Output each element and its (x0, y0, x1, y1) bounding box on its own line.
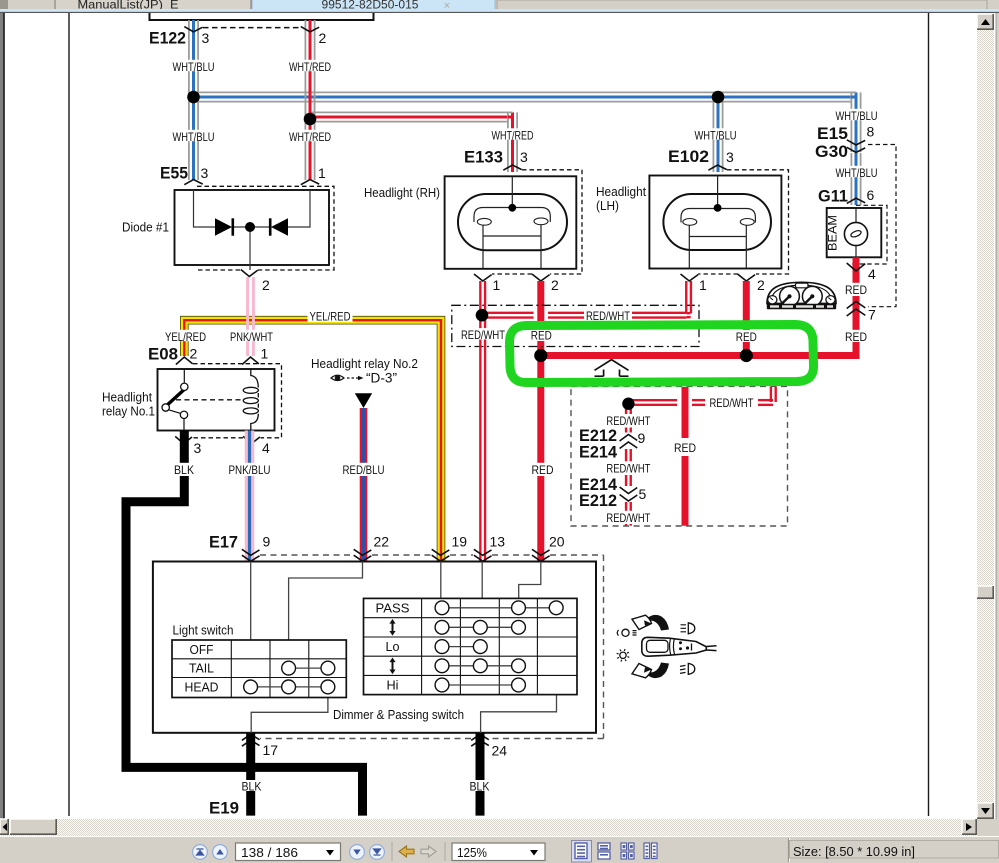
relay coil (251, 369, 258, 431)
low beam icon (688, 663, 695, 674)
svg-text:138 / 186: 138 / 186 (241, 846, 298, 860)
wire YEL/RED path (184, 320, 441, 561)
svg-text:Headlight relay No.2: Headlight relay No.2 (311, 356, 418, 371)
connector E133 pin3 chevron (503, 165, 521, 170)
svg-text:Diode #1: Diode #1 (122, 220, 169, 235)
svg-text:WHT/RED: WHT/RED (289, 130, 331, 144)
headlight LH box (649, 176, 781, 269)
svg-text:HEAD: HEAD (185, 679, 219, 694)
svg-text:E102: E102 (668, 148, 709, 166)
headlight LH filaments (681, 209, 755, 223)
label WHT/RED E133 (490, 128, 536, 139)
label RED/WHT (2) (604, 461, 652, 472)
redraw PNK/WHT over yellow (246, 308, 249, 326)
BEAM dashed box (850, 205, 887, 264)
svg-text:RED: RED (531, 328, 552, 342)
h-scroll left button (0, 819, 9, 835)
diode D1 center node (245, 222, 255, 232)
svg-text:3: 3 (201, 165, 209, 181)
label PNK/WHT (228, 330, 275, 341)
svg-text:24: 24 (492, 743, 508, 759)
v-scroll down button (977, 803, 994, 819)
connector E122 dashed line (203, 27, 301, 29)
svg-text:E133: E133 (464, 149, 503, 167)
headlight LH bulb outline (663, 194, 771, 250)
high beam icon (688, 623, 695, 634)
connector E08 pin3 chevron (175, 436, 192, 443)
position lamp icon (622, 629, 629, 636)
BEAM internal wire (855, 208, 857, 257)
wire RED/WHT horizontal in dashdot box (482, 312, 534, 314)
svg-text:RED: RED (845, 330, 867, 344)
label RED/WHT on wire gap (584, 309, 632, 320)
svg-text:E19: E19 (209, 800, 239, 818)
wire RED E133-2 down (537, 281, 544, 329)
svg-text:BLK: BLK (242, 782, 262, 794)
svg-text:WHT/BLU: WHT/BLU (173, 130, 215, 144)
connector E55 pin1 chevron (301, 180, 319, 185)
BEAM bulb (844, 222, 867, 245)
tab 99512 active (252, 0, 495, 12)
svg-text:Lo: Lo (386, 639, 400, 654)
svg-text:4: 4 (868, 266, 876, 282)
light switch contacts HEAD (251, 686, 328, 688)
relay switch contact (183, 369, 185, 431)
svg-text:E08: E08 (148, 346, 178, 364)
wire RED/WHT E133-1 down to E17-13 (479, 281, 481, 562)
connector 5 double chevron down (620, 487, 638, 494)
svg-text:RED/WHT: RED/WHT (461, 328, 506, 342)
svg-text:1: 1 (318, 165, 326, 181)
diode D1 internal wiring (194, 190, 311, 270)
connector E102 pin1 chevron (681, 274, 699, 281)
dimmer passing switch table (364, 598, 578, 694)
stalk icon (617, 615, 717, 678)
svg-text:PNK/BLU: PNK/BLU (229, 463, 271, 477)
svg-text:1: 1 (261, 346, 269, 362)
connector E55 pin2 chevron (241, 270, 258, 277)
zoom field (452, 843, 545, 861)
connector E08 pin2 chevron (176, 357, 193, 365)
junction node main red / E102-2 (740, 349, 753, 362)
dash-dot box RED/WHT (452, 305, 699, 346)
label WHT/BLU E15 (834, 109, 880, 120)
svg-text:1: 1 (699, 277, 707, 293)
size panel (788, 838, 790, 862)
svg-text:RED: RED (845, 283, 867, 297)
eye symbol + D-3 reference (331, 375, 364, 380)
svg-text:E212: E212 (579, 492, 617, 510)
junction node main red / E133-2 (534, 349, 547, 362)
svg-text:G30: G30 (815, 143, 848, 161)
relay solid box (158, 369, 275, 431)
svg-text:13: 13 (490, 534, 506, 550)
label WHT/RED row1 (287, 60, 333, 71)
connector E17 pin17 chevrons (242, 734, 260, 740)
stalk lower arrow (648, 663, 669, 679)
svg-text:Light switch: Light switch (173, 623, 234, 638)
wire RED from BEAM pin4 (853, 257, 860, 283)
wire WHT/BLU E122-3 to E55-3 (188, 20, 190, 180)
label RED (above pin7) (843, 283, 869, 294)
h-scroll right button (962, 819, 977, 835)
status bar (0, 836, 999, 863)
svg-text:WHT/BLU: WHT/BLU (836, 109, 878, 123)
svg-text:17: 17 (263, 742, 279, 758)
connector E133 pin2 chevron (532, 274, 550, 281)
connector E55 pin3 chevron (184, 180, 202, 185)
dimmer contacts (442, 607, 556, 609)
svg-text:19: 19 (452, 534, 468, 550)
dashed bracket E15-G30 to pin7 (868, 145, 896, 307)
svg-text:WHT/RED: WHT/RED (289, 60, 331, 74)
main RED horizontal wire (541, 352, 860, 359)
label RED on E133-2 wire (529, 328, 554, 339)
svg-text:RED/WHT: RED/WHT (606, 461, 651, 475)
svg-text:Hi: Hi (387, 678, 399, 693)
svg-text:WHT/BLU: WHT/BLU (173, 60, 215, 74)
wire WHT/BLU to E102-3 (712, 97, 714, 172)
svg-text:9: 9 (638, 430, 646, 446)
svg-text:Headlight: Headlight (102, 390, 152, 405)
svg-text:7: 7 (868, 307, 876, 323)
svg-text:PNK/WHT: PNK/WHT (230, 330, 274, 344)
svg-text:9: 9 (263, 534, 271, 550)
diode D1 solid box (175, 190, 330, 265)
history back arrow (yellow) (399, 846, 414, 857)
wire PNK/WHT diode to E08 (246, 277, 249, 356)
svg-text:WHT/BLU: WHT/BLU (836, 166, 878, 180)
page frame left line (68, 13, 70, 816)
instrument cluster icon (767, 282, 836, 309)
svg-text:5: 5 (639, 486, 647, 502)
svg-text:2: 2 (757, 277, 765, 293)
switch unit solid box (153, 562, 596, 733)
svg-text:E212: E212 (579, 427, 617, 445)
wire RED/WHT horizontal in E212 box (628, 399, 677, 401)
connector E122 pin 2 chevron (301, 27, 319, 32)
label RED (below pin7) (843, 330, 869, 341)
BEAM solid box (827, 208, 882, 257)
headlight RH box (445, 176, 577, 268)
off/sun icon (620, 652, 626, 658)
wire PNK/BLU (245, 431, 255, 465)
svg-text:E122: E122 (149, 30, 186, 48)
E212/E214 dashed box (571, 386, 788, 526)
svg-text:E214: E214 (579, 444, 618, 462)
svg-text:RED/WHT: RED/WHT (606, 414, 651, 428)
wire RED/WHT vertical in E212 box (625, 404, 627, 414)
svg-text:relay No.1: relay No.1 (102, 404, 155, 419)
svg-text:3: 3 (202, 30, 210, 46)
wire RED/WHT E102-1 corner (685, 281, 687, 313)
svg-text:WHT/RED: WHT/RED (492, 128, 534, 142)
svg-text:1: 1 (493, 277, 501, 293)
connector pin7 double chevron (847, 302, 866, 309)
svg-text:YEL/RED: YEL/RED (310, 310, 351, 324)
svg-text:6: 6 (867, 187, 875, 203)
svg-text:2: 2 (319, 30, 327, 46)
v-scroll up button (977, 14, 994, 30)
svg-text:RED: RED (532, 463, 554, 477)
svg-text:TAIL: TAIL (189, 661, 214, 676)
svg-text:OFF: OFF (190, 642, 214, 657)
wire WHT/RED E122-2 to E55-1 (304, 20, 306, 180)
label BLK pin24 (468, 780, 492, 791)
headlight LH dashed connector box (698, 170, 789, 274)
svg-text:RED/WHT: RED/WHT (710, 396, 755, 410)
light switch table (172, 640, 346, 698)
diode D1 dashed connector box (197, 186, 334, 270)
light switch contacts TAIL (289, 667, 328, 669)
svg-text:Dimmer & Passing switch: Dimmer & Passing switch (333, 707, 464, 722)
label RED on pin20 wire (530, 463, 556, 474)
relay dashed connector box (193, 364, 282, 438)
history fwd arrow (gray) (421, 846, 436, 857)
label RED on E102-2 wire (734, 330, 759, 341)
diode D1 right diode (271, 218, 288, 235)
junction node E212 (622, 398, 634, 410)
wire BLK pin17 to E19 (246, 733, 255, 816)
relay mechanical dashed link (176, 399, 242, 401)
connector G30 chevron (847, 147, 865, 152)
label WHT/BLU row2 (171, 130, 217, 141)
headlight RH filaments (474, 208, 550, 223)
svg-text:WHT/BLU: WHT/BLU (695, 128, 737, 142)
v-scroll thumb (977, 586, 994, 599)
svg-text:3: 3 (726, 149, 734, 165)
connector pin4 chevron (847, 263, 866, 271)
wire WHT/BLU G11 below G30 (850, 153, 852, 205)
svg-text:E17: E17 (209, 534, 238, 552)
svg-text:G11: G11 (818, 188, 848, 206)
wire BLK pin24 down (476, 733, 485, 816)
svg-text:RED/WHT: RED/WHT (606, 511, 651, 525)
wire RED inside E212 box (682, 387, 689, 438)
label WHT/BLU row1 (171, 60, 217, 71)
page frame right line (928, 13, 930, 816)
svg-text:BLK: BLK (174, 463, 194, 477)
connector E08 pin1 chevron (242, 357, 259, 365)
connector 9 double chevron up (620, 435, 638, 442)
svg-text:8: 8 (867, 124, 875, 140)
E17 dashed connector line top (260, 555, 604, 739)
vertical scrollbar (977, 13, 994, 819)
E17 pin chevrons (double) (242, 549, 260, 555)
label YEL/RED horizontal gap (308, 309, 353, 322)
svg-text:4: 4 (262, 440, 270, 456)
label RED/WHT in E212 box horizontal (708, 396, 756, 407)
tab ManualList (55, 0, 251, 10)
connector E15 chevron (847, 140, 865, 145)
label WHT/BLU E102 (693, 128, 739, 139)
up-down arrows (392, 623, 394, 631)
label RED/WHT below junction (459, 328, 507, 339)
switch unit internal wires (251, 562, 557, 733)
layout buttons (572, 841, 592, 863)
junction node RED/WHT (476, 309, 489, 322)
connector E133 pin1 chevron (474, 274, 492, 281)
label WHT/BLU G11 (834, 166, 880, 177)
headlight RH bulb outline (458, 194, 567, 250)
horizontal scrollbar (0, 819, 977, 836)
svg-text:PASS: PASS (376, 601, 410, 616)
svg-text:RED/BLU: RED/BLU (343, 463, 385, 477)
wire WHT/BLU horizontal bus (194, 91, 852, 93)
connector E122 pin 3 chevron (184, 27, 202, 32)
svg-text:2: 2 (262, 277, 270, 293)
label BLK pin17 (240, 780, 264, 791)
svg-text:(LH): (LH) (596, 198, 619, 213)
svg-text:BEAM: BEAM (826, 215, 840, 251)
junction node E102-3 bus (712, 91, 725, 104)
svg-text:E15: E15 (817, 125, 848, 143)
top component box (cut) (150, 13, 374, 20)
label RED/WHT (3) (604, 511, 652, 522)
svg-text:BLK: BLK (470, 782, 490, 794)
connector G11 chevron (847, 198, 865, 203)
svg-text:RED: RED (674, 441, 696, 455)
wire RED/BLU (360, 408, 368, 464)
svg-text:Headlight: Headlight (596, 184, 646, 199)
svg-text:“D-3”: “D-3” (366, 370, 397, 386)
wire WHT/RED horizontal to E133 (310, 111, 508, 113)
svg-text:Headlight (RH): Headlight (RH) (364, 185, 440, 200)
stalk upper arrow (648, 615, 669, 631)
label RED/WHT (1) (604, 414, 652, 425)
re-draw red vertical over blue bus (304, 90, 306, 124)
label RED inside E212 box (672, 441, 698, 452)
svg-text:125%: 125% (457, 846, 487, 860)
diode D1 left diode (215, 218, 232, 235)
tab bar lower strip (497, 0, 987, 10)
connector E102 pin3 chevron (708, 165, 726, 170)
svg-text:2: 2 (551, 277, 559, 293)
svg-text:2: 2 (190, 346, 198, 362)
connector E08 pin4 chevron (243, 436, 260, 443)
tab bar background (0, 0, 999, 13)
junction node E122-2 bus (304, 113, 317, 126)
svg-text:22: 22 (374, 534, 390, 550)
svg-text:20: 20 (549, 534, 565, 550)
svg-text:RED: RED (736, 330, 757, 344)
svg-text:YEL/RED: YEL/RED (165, 330, 206, 344)
h-scroll thumb (10, 819, 57, 835)
wire RED E102-2 down (743, 281, 750, 331)
house up-arrow symbol (595, 360, 629, 377)
wire BLK relay ground (126, 431, 363, 816)
svg-text:3: 3 (520, 149, 528, 165)
nav first/prev buttons (193, 845, 208, 860)
svg-text:Size: [8.50 * 10.99 in]: Size: [8.50 * 10.99 in] (793, 845, 915, 859)
nav next/last buttons (350, 845, 365, 860)
wire RED E17-20 down (537, 356, 544, 465)
label WHT/RED row2 (287, 130, 333, 141)
scrollbar corner (977, 819, 999, 836)
connector E17 pin24 chevrons (471, 734, 489, 740)
label BLK (172, 463, 196, 474)
green highlight annotation (510, 325, 814, 383)
connector E102 pin2 chevron (738, 274, 756, 281)
label YEL/RED vertical (163, 330, 208, 341)
headlight RH dashed connector box (492, 170, 582, 274)
page number field (236, 843, 341, 861)
junction node E122-3 bus (187, 91, 200, 104)
svg-text:E55: E55 (160, 165, 188, 183)
power feed triangle (355, 393, 372, 408)
svg-text:3: 3 (194, 440, 202, 456)
label RED/BLU (341, 463, 387, 474)
label PNK/BLU (227, 463, 273, 474)
